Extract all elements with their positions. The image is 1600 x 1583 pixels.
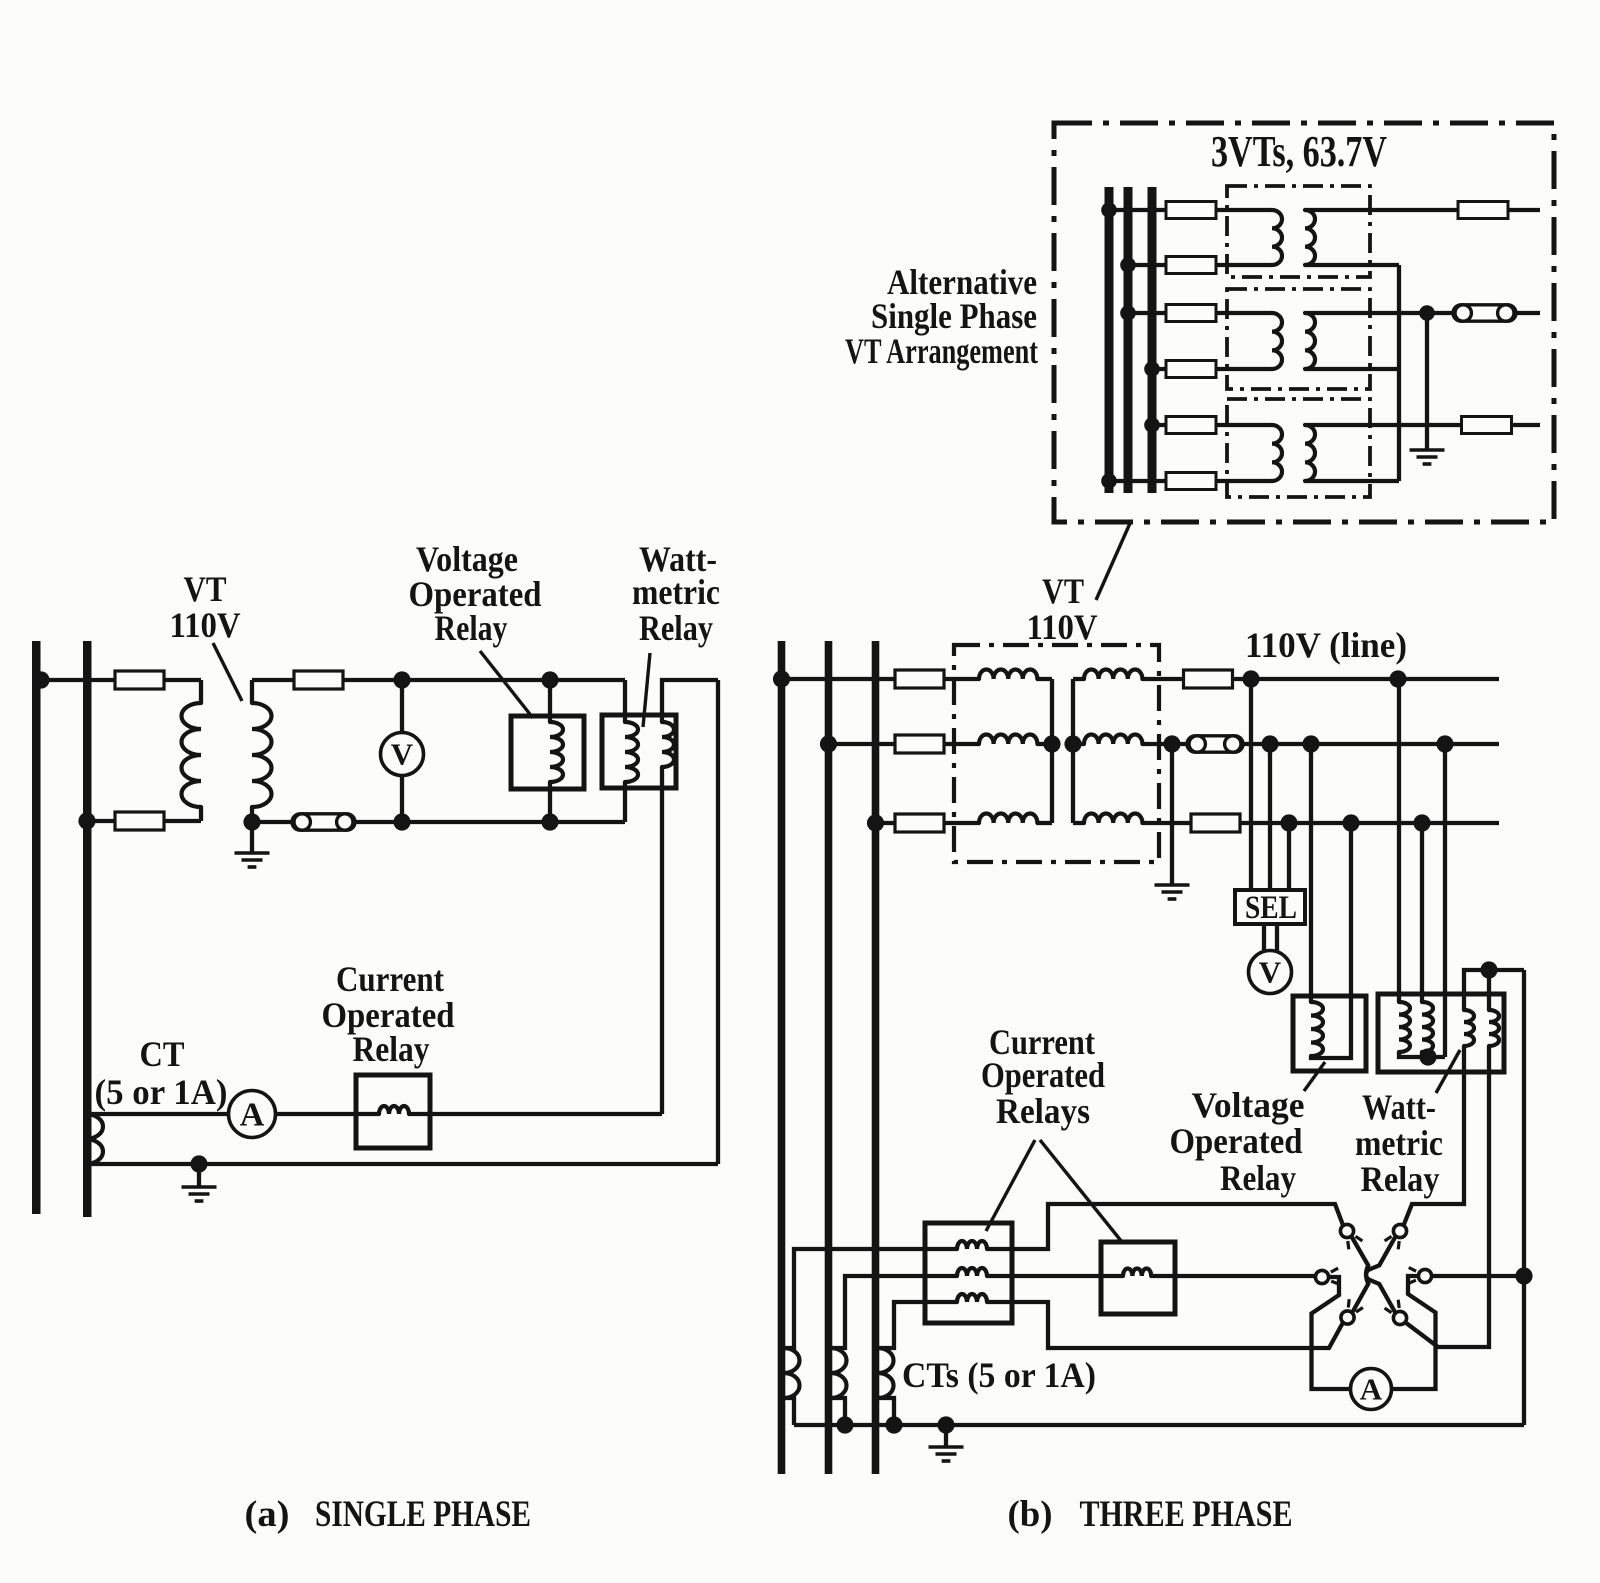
- svg-text:CT: CT: [140, 1034, 185, 1074]
- wire: secondary phase3 110V line: [1142, 821, 1499, 825]
- junction: CT common earth tap: [937, 1416, 954, 1433]
- busbar L1 (single phase): [32, 641, 41, 1214]
- wire: phase2 to VT primary: [829, 742, 980, 746]
- switch contact TL: [1340, 1224, 1353, 1237]
- current relay 2 coil: [1123, 1269, 1151, 1277]
- wire: inset row 5 to unit: [1152, 423, 1227, 427]
- watt-metric relay box (single phase): [602, 715, 676, 788]
- svg-text:Relay: Relay: [1220, 1158, 1296, 1198]
- svg-text:Watt-: Watt-: [1362, 1087, 1436, 1127]
- wire: CT return conductor: [91, 1162, 718, 1166]
- pointer: watt-metric label to box: [1436, 1050, 1460, 1093]
- CT winding phase 1 (three phase): [784, 1348, 799, 1398]
- inset enclosure (dash-dot): [1054, 123, 1554, 522]
- pointer: voltage relay label to box: [1304, 1062, 1325, 1091]
- svg-text:Voltage: Voltage: [1192, 1085, 1305, 1125]
- wire: phase1 to SEL: [1249, 679, 1253, 890]
- junction: CT2 on common return: [836, 1416, 853, 1433]
- pointer: voltage relay label to box: [480, 651, 533, 718]
- junction on busbar R, phase 1 tap: [773, 670, 790, 687]
- wire: CT3 secondary bottom to common: [878, 1398, 895, 1425]
- VT primary winding phase 3: [979, 814, 1037, 824]
- wire: inset neutral output line: [1305, 311, 1540, 315]
- inset VT3 secondary winding: [1305, 425, 1315, 481]
- junction: V-meter bottom tap: [393, 813, 410, 830]
- wire: ML pocket to ammeter left: [1312, 1277, 1351, 1389]
- wire: VT primary bottom stub: [199, 807, 203, 821]
- svg-text:SEL: SEL: [1245, 890, 1297, 926]
- voltage operated relay coil (three phase): [1311, 1002, 1323, 1056]
- voltmeter V (three phase): [1249, 951, 1292, 994]
- svg-text:V: V: [391, 736, 414, 771]
- wire: VT primary star point: [1050, 679, 1054, 823]
- junction: SEL tap phase1: [1242, 670, 1259, 687]
- junction on busbar Y, phase 2 tap: [820, 735, 837, 752]
- inset VT1 primary leads: [1227, 210, 1272, 265]
- wire: L2 tap to VT primary bottom: [91, 819, 201, 823]
- pointer: relays label to box1: [986, 1140, 1035, 1231]
- VT 110V secondary winding (single phase): [252, 703, 272, 807]
- pointer: VT 110V label to winding: [213, 643, 242, 701]
- wire: secondary phase1 110V line: [1142, 677, 1499, 681]
- wire: MR contact to right riser: [1432, 1274, 1525, 1278]
- inset output fuse 1: [1458, 202, 1508, 219]
- svg-text:metric: metric: [1355, 1123, 1443, 1163]
- watt-metric current coil D: [1489, 1010, 1499, 1046]
- inset fuse row 3: [1166, 305, 1216, 322]
- inset VT3 secondary bottom to common: [1305, 479, 1399, 483]
- current relay coil at y=1302: [957, 1294, 987, 1302]
- VT secondary winding phase 3: [1084, 814, 1142, 824]
- inset fuse row 5: [1166, 417, 1216, 434]
- wire: relay1 coil1 to switch contact TL: [1012, 1204, 1344, 1249]
- watt-metric current coil C: [1464, 1010, 1474, 1046]
- wire: inset row 2 to unit: [1128, 263, 1227, 267]
- current operated relay box 2 (three phase): [1101, 1242, 1175, 1314]
- watt-metric relay current coil: [662, 722, 674, 767]
- svg-text:Operated: Operated: [1170, 1121, 1303, 1161]
- inset busbar 3: [1148, 187, 1157, 493]
- watt-metric voltage coil A: [1399, 1002, 1410, 1052]
- svg-text:A: A: [240, 1096, 265, 1133]
- svg-text:110V (line): 110V (line): [1245, 625, 1407, 665]
- wire: CT earth stem (three phase): [944, 1425, 948, 1446]
- wire: voltage relay coil top lead: [548, 680, 552, 722]
- fuse F3 secondary: [294, 671, 343, 689]
- inset VT3 primary winding: [1272, 425, 1282, 481]
- svg-text:110V: 110V: [1027, 607, 1098, 647]
- wire: VT secondary bottom stub: [250, 807, 254, 822]
- VT primary winding phase 2: [979, 735, 1037, 745]
- junction on busbar B, phase 3 tap: [867, 814, 884, 831]
- junction: watt-metric coil tap phase3: [1413, 814, 1430, 831]
- junction inset busbar tap row 1: [1101, 202, 1117, 218]
- wire: voltage relay coil bottom lead: [548, 782, 552, 822]
- inset VT2 secondary winding: [1305, 313, 1315, 369]
- wire: current coil C to switch contact TR: [1404, 1046, 1465, 1226]
- svg-text:THREE PHASE: THREE PHASE: [1080, 1494, 1293, 1535]
- switch contact TR: [1393, 1224, 1406, 1237]
- wire: right return conductor of CT loop: [716, 680, 720, 1164]
- svg-text:Single Phase: Single Phase: [871, 296, 1037, 336]
- wire: current coil C top to right riser: [1464, 970, 1524, 1010]
- wire: current coil D top lead: [1487, 970, 1491, 1010]
- inset VT2 primary leads: [1227, 313, 1272, 369]
- link (earthing link) on bottom rail: [292, 814, 355, 830]
- wire: VT primary top stub: [199, 680, 203, 703]
- inset fuse row 6: [1166, 473, 1216, 490]
- inset fuse row 1: [1166, 202, 1216, 219]
- wire: inset row 4 to unit: [1152, 367, 1227, 371]
- junction: secondary neutral / earth tap: [243, 813, 260, 830]
- svg-text:Current: Current: [336, 959, 444, 999]
- inset VT unit 3 (dash-dot): [1227, 399, 1370, 497]
- svg-text:SINGLE PHASE: SINGLE PHASE: [315, 1494, 531, 1535]
- current operated relay box 1 (three phase): [925, 1223, 1012, 1323]
- svg-text:3VTs, 63.7V: 3VTs, 63.7V: [1211, 127, 1387, 176]
- inset VT2 secondary bottom to common: [1305, 367, 1399, 371]
- wire: CT2 secondary top to relay: [831, 1276, 926, 1348]
- busbar L2 (single phase): [83, 641, 92, 1217]
- wire: CT common return: [794, 1423, 1524, 1427]
- junction: voltage relay tap phase2: [1302, 735, 1319, 752]
- svg-text:(a): (a): [245, 1494, 290, 1535]
- svg-text:CTs (5 or 1A): CTs (5 or 1A): [902, 1355, 1096, 1395]
- CT winding phase 3 (three phase): [878, 1348, 894, 1398]
- svg-text:Relays: Relays: [996, 1091, 1090, 1131]
- voltmeter V (single phase): [381, 733, 424, 776]
- wire: watt-metric common return to phase2: [1443, 744, 1447, 1057]
- junction inset busbar tap row 2: [1120, 257, 1136, 273]
- inset VT unit 1 (dash-dot): [1227, 186, 1370, 277]
- fuse F2 primary bottom: [115, 812, 164, 830]
- svg-text:Voltage: Voltage: [416, 539, 518, 579]
- wire: phase3 to VT primary: [876, 821, 980, 825]
- fuse phase 2 primary: [895, 735, 944, 753]
- fuse phase 3 primary: [895, 814, 944, 832]
- wire: watt-metric voltage coil top lead: [623, 680, 627, 722]
- junction: CT circuit earth tap: [190, 1155, 207, 1172]
- junction: SEL tap phase3: [1280, 814, 1297, 831]
- wire: inset output line 3: [1305, 423, 1540, 427]
- wire: secondary top 110V rail: [252, 678, 625, 682]
- switch contact MR: [1418, 1269, 1431, 1282]
- ammeter A (single phase): [229, 1091, 276, 1138]
- svg-text:A: A: [1360, 1371, 1383, 1406]
- junction inset busbar tap row 4: [1144, 361, 1160, 377]
- inset VT1 secondary bottom to common: [1305, 263, 1399, 267]
- svg-text:Relay: Relay: [1361, 1159, 1440, 1199]
- fuse F1 primary top: [115, 671, 164, 689]
- wire: watt-metric voltage coil bottom lead: [623, 782, 627, 822]
- ground in inset: [1410, 450, 1445, 464]
- svg-text:VT Arrangement: VT Arrangement: [845, 331, 1038, 371]
- wire: CT earth stem: [197, 1164, 201, 1186]
- wire: right riser from watt-metric to CT common: [1522, 970, 1526, 1425]
- wire: watt-metric voltage coils common: [1399, 1052, 1445, 1057]
- junction: voltage relay bottom tap: [541, 813, 558, 830]
- wire: inset row 1 to unit: [1109, 208, 1227, 212]
- junction on busbar L2, VT primary bottom tap: [78, 812, 95, 829]
- wire: L1 tap to VT primary top: [41, 678, 201, 682]
- svg-text:Operated: Operated: [981, 1055, 1105, 1095]
- wire: ammeter to current relay to watt-metric coil: [276, 1112, 663, 1116]
- wire: earth stem of VT secondary: [250, 822, 254, 852]
- pointer: inset to VT 110V: [1096, 521, 1131, 600]
- ammeter A (three phase): [1351, 1369, 1392, 1410]
- wire: phase1 to watt-metric voltage coil A: [1397, 679, 1401, 1002]
- link on secondary phase 2: [1187, 736, 1243, 752]
- junction: watt-metric voltage coils joint: [1419, 1048, 1436, 1065]
- junction: primary star at phase2: [1043, 735, 1060, 752]
- svg-text:Relay: Relay: [435, 608, 508, 648]
- junction on busbar L1, VT primary top tap: [32, 671, 49, 688]
- fuse secondary phase 3: [1191, 814, 1240, 832]
- wire: inset output line 1: [1305, 208, 1540, 212]
- wire: phase2 to voltage relay coil: [1309, 744, 1313, 1002]
- VT 110V enclosure (dash-dot): [954, 645, 1159, 862]
- VT secondary winding phase 2: [1084, 735, 1142, 745]
- inset output fuse 3: [1462, 417, 1512, 434]
- VT 110V primary winding (single phase): [182, 703, 202, 807]
- svg-text:(5 or 1A): (5 or 1A): [95, 1072, 228, 1112]
- wire: phase3 to SEL: [1287, 823, 1291, 890]
- junction inset busbar tap row 5: [1144, 417, 1160, 433]
- inset fuse row 4: [1166, 361, 1216, 378]
- wire: selector blade TR-BL with hop: [1352, 1237, 1396, 1314]
- inset VT1 primary winding: [1272, 210, 1282, 265]
- junction: watt-metric coil tap phase1: [1389, 670, 1406, 687]
- junction: voltage relay tap phase3: [1342, 814, 1359, 831]
- junction: voltage relay tap on top rail: [541, 671, 558, 688]
- wire: MR pocket to ammeter right: [1392, 1276, 1436, 1389]
- junction inset busbar tap row 6: [1101, 473, 1117, 489]
- junction: current coil D top tap: [1480, 961, 1497, 978]
- junction inset busbar tap row 3: [1120, 305, 1136, 321]
- svg-text:(b): (b): [1008, 1494, 1053, 1535]
- svg-text:Relay: Relay: [639, 608, 713, 648]
- wire: phase1 to VT primary: [782, 677, 980, 681]
- inset VT unit 2 (dash-dot): [1227, 289, 1370, 389]
- VT secondary winding phase 1: [1084, 670, 1142, 680]
- busbar R (three phase): [778, 641, 786, 1474]
- wire: CT secondary to ammeter: [91, 1112, 229, 1116]
- wire: V-meter leads: [400, 680, 404, 822]
- wire: watt-metric current coil drop to CT circuit: [660, 767, 664, 1114]
- inset busbar 2: [1124, 187, 1133, 493]
- junction: secondary earth tap phase2: [1163, 735, 1180, 752]
- wire: secondary phase2 110V line: [1142, 742, 1499, 746]
- wire: CT2 secondary bottom to common: [831, 1398, 846, 1425]
- wire: phase3 to watt-metric voltage coil B: [1420, 823, 1424, 1002]
- voltage operated relay coil: [550, 722, 563, 782]
- fuse phase 1 primary: [895, 670, 944, 688]
- current relay coil at y=1249: [957, 1241, 987, 1249]
- wire: relay1 coil3 to switch contact BL: [1012, 1302, 1343, 1348]
- svg-text:VT: VT: [184, 569, 227, 609]
- wire: secondary bottom rail: [252, 820, 625, 824]
- inset VT3 primary leads: [1227, 425, 1272, 481]
- inset busbar 1: [1105, 187, 1114, 493]
- switch contact BR: [1393, 1311, 1406, 1324]
- voltage operated relay box (single phase): [511, 716, 584, 789]
- inset VT2 primary winding: [1272, 313, 1282, 369]
- svg-text:V: V: [1259, 954, 1282, 989]
- junction: CT3 on common return: [885, 1416, 902, 1433]
- wire: secondary earth stem: [1170, 744, 1174, 884]
- ground at VT secondary (three phase): [1155, 885, 1190, 899]
- svg-text:110V: 110V: [170, 605, 241, 645]
- wire: VT secondary star point: [1071, 679, 1075, 823]
- wire: selector blade TL-BR with hop: [1352, 1237, 1396, 1314]
- wire: watt-metric current coil top jumper: [662, 680, 718, 722]
- wire: current coil D to switch contact BR: [1406, 1046, 1490, 1347]
- svg-text:metric: metric: [632, 572, 720, 612]
- wire: inset earth stem: [1425, 313, 1429, 449]
- junction: watt-metric return tap phase2: [1436, 735, 1453, 752]
- CT winding phase 2 (three phase): [831, 1348, 846, 1398]
- wire: relay2 to switch contact ML: [1151, 1274, 1315, 1278]
- wire: relay1 coil2 to relay2: [1012, 1274, 1123, 1278]
- current relay coil at y=1276: [957, 1268, 987, 1276]
- ground at CT circuit: [182, 1187, 217, 1201]
- wire: SEL to voltmeter (double lead): [1264, 924, 1277, 951]
- wire: CT1 secondary bottom to common: [784, 1398, 795, 1425]
- pointer: watt-metric label to box: [643, 653, 650, 727]
- busbar B (three phase): [872, 641, 880, 1474]
- ground at VT secondary neutral: [235, 853, 270, 867]
- inset link on neutral output: [1453, 305, 1516, 321]
- junction: ammeter selector MR tap on right riser: [1515, 1267, 1532, 1284]
- wire: inset secondary common riser: [1397, 265, 1401, 481]
- wire: inset row 6 to unit: [1109, 479, 1227, 483]
- inset VT1 secondary winding: [1305, 210, 1315, 265]
- junction: secondary star at phase2: [1064, 735, 1081, 752]
- CT winding on busbar L2 (5 or 1A): [86, 1114, 103, 1164]
- wire: VT secondary top stub: [250, 680, 254, 703]
- junction: inset neutral earth tap: [1419, 305, 1435, 321]
- current operated relay coil: [379, 1106, 409, 1114]
- busbar Y (three phase): [825, 641, 833, 1474]
- voltage operated relay box (three phase): [1293, 996, 1366, 1071]
- wire: inset row 3 to unit: [1128, 311, 1227, 315]
- junction: V-meter tap on top rail: [393, 671, 410, 688]
- fuse secondary phase 1: [1184, 670, 1233, 688]
- wire: voltage relay coil return to phase3: [1311, 823, 1351, 1058]
- VT primary winding phase 1: [979, 670, 1037, 680]
- wire: CT3 secondary top to relay: [878, 1302, 926, 1348]
- pointer: relays label to box2: [1040, 1140, 1122, 1242]
- junction: SEL tap phase2: [1261, 735, 1278, 752]
- current operated relay box (single phase): [356, 1075, 430, 1148]
- svg-text:VT: VT: [1042, 571, 1084, 611]
- watt-metric voltage coil B: [1422, 1002, 1433, 1052]
- watt-metric relay voltage coil: [625, 722, 638, 782]
- switch contact BL: [1341, 1311, 1354, 1324]
- inset fuse row 2: [1166, 257, 1216, 274]
- watt-metric relay box (three phase): [1378, 994, 1504, 1072]
- switch contact ML: [1315, 1270, 1328, 1283]
- wire: phase2 to SEL: [1268, 744, 1272, 890]
- SEL selector box: [1235, 890, 1305, 924]
- wire: CT1 secondary top to relay: [784, 1249, 926, 1348]
- svg-text:Relay: Relay: [353, 1029, 430, 1069]
- ground at CT common (three phase): [929, 1447, 964, 1461]
